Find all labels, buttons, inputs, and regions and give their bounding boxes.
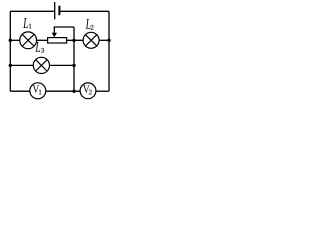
junction dot right row2 — [107, 39, 110, 42]
junction dot node B row2 — [72, 39, 75, 42]
junction dot left row3 — [9, 64, 12, 67]
wire V2 to bottom-right corner — [96, 90, 109, 92]
wire top-left from battery to corner — [10, 10, 54, 12]
battery cell long plate — [54, 2, 56, 19]
junction dot node B bottom — [72, 90, 75, 93]
wire row3 left to lamp L3 — [10, 64, 33, 66]
junction dot left row2 — [9, 39, 12, 42]
label L1 — [23, 18, 31, 28]
rheostat body — [48, 38, 67, 43]
wire left side — [9, 11, 11, 91]
junction dot node B row3 — [72, 64, 75, 67]
wire L2 to right side — [99, 39, 109, 41]
wire node B vertical — [73, 27, 75, 91]
lamp L3 — [33, 57, 49, 73]
lamp L2 — [83, 32, 99, 48]
lamp L1 — [20, 32, 37, 49]
wire rheostat to node B — [67, 39, 84, 41]
battery cell short thick plate — [58, 6, 60, 16]
rheostat wiper arrowhead — [52, 33, 57, 38]
wire V1 to middle junction — [46, 90, 80, 92]
wire L1 to rheostat — [37, 39, 48, 41]
wire top-right from battery to corner — [60, 10, 109, 12]
label L3 — [35, 42, 44, 53]
label L2 — [86, 19, 94, 30]
wire row2 left to lamp L1 — [10, 39, 19, 41]
wire L3 to node B — [50, 64, 75, 66]
voltmeter V2 — [80, 83, 96, 99]
wire rheostat wiper lead — [54, 27, 74, 34]
voltmeter V1 — [30, 83, 46, 99]
wire bottom-left to voltmeter V1 — [10, 90, 30, 92]
wire right side — [108, 11, 110, 91]
